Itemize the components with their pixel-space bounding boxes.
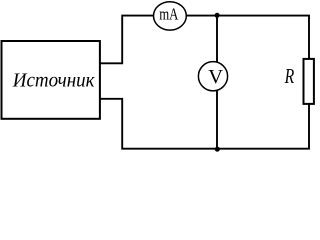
- node B: bottom junction dot: [215, 147, 220, 152]
- source box U1 (Источник): [2, 41, 100, 119]
- wire: top junction down to voltmeter top: [216, 16, 218, 63]
- wire: source bottom terminal, bottom rail, right riser to resistor bottom: [100, 99, 309, 149]
- voltmeter PV1 (V): [198, 62, 227, 91]
- wire: voltmeter bottom down to bottom junction: [216, 91, 218, 149]
- node A: top junction dot: [215, 13, 220, 18]
- ammeter PA1 (mA): [154, 2, 187, 30]
- resistor R: [304, 59, 314, 104]
- svg-text:V: V: [208, 66, 223, 88]
- wire: top rail from ammeter to right riser down to resistor top: [187, 16, 310, 59]
- svg-text:mA: mA: [159, 5, 179, 24]
- svg-text:R: R: [284, 64, 294, 88]
- wire: source top terminal to top rail via left riser: [100, 16, 153, 64]
- svg-text:Источник: Источник: [12, 70, 95, 92]
